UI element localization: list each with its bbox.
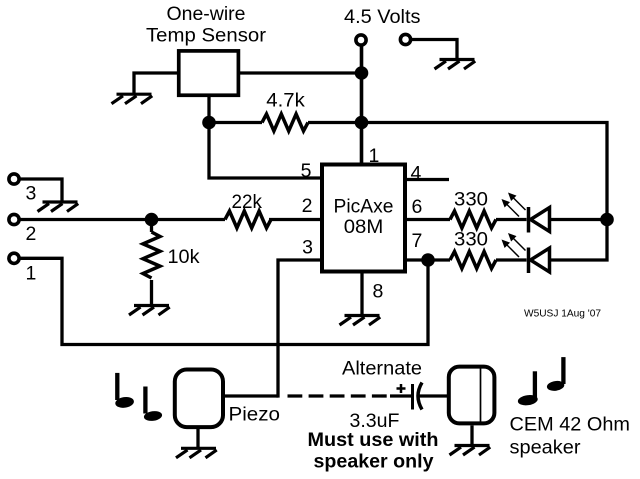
wire terminal 1 to pin 7 node xyxy=(21,258,429,344)
wire LED D1 to rail xyxy=(550,218,608,221)
junction (sensor Vdd) xyxy=(355,66,369,80)
capacitor 3.3uF xyxy=(413,383,423,410)
wire pin 7 xyxy=(405,258,450,261)
svg-text:2: 2 xyxy=(302,195,313,217)
wire sensor data drop to pin 5 xyxy=(209,95,322,178)
wire piezo to ground xyxy=(196,428,199,449)
note icons (piezo) xyxy=(115,373,163,422)
svg-text:6: 6 xyxy=(412,196,423,218)
wire sensor left to ground xyxy=(134,73,179,94)
resistor 22k xyxy=(225,211,322,228)
wire piezo to pin 3 xyxy=(224,394,278,397)
label One-wire Temp Sensor xyxy=(146,3,267,47)
terminal 1 xyxy=(9,253,19,263)
junction (LED1 anode) xyxy=(600,213,614,227)
ground (10k) xyxy=(129,306,170,316)
svg-text:4: 4 xyxy=(411,163,422,185)
wire terminal to ground xyxy=(412,40,457,60)
label PicAxe 08M xyxy=(334,196,394,239)
LED D1 arrows xyxy=(502,193,526,217)
junction (10k divider) xyxy=(145,213,159,227)
terminal 3 xyxy=(9,174,19,184)
resistor 330 (pin 6) xyxy=(450,211,527,228)
resistor 4.7k xyxy=(209,114,362,131)
wire pin 6 xyxy=(405,218,450,221)
svg-text:330: 330 xyxy=(454,189,488,211)
note icons (speaker) xyxy=(517,357,565,406)
svg-text:22k: 22k xyxy=(232,191,263,213)
LED D2 arrows xyxy=(502,233,526,257)
svg-text:1: 1 xyxy=(369,145,380,167)
label CEM 42 Ohm speaker xyxy=(510,414,631,459)
svg-text:5: 5 xyxy=(301,160,312,182)
svg-text:W5USJ 1Aug '07: W5USJ 1Aug '07 xyxy=(524,308,601,320)
svg-text:Temp Sensor: Temp Sensor xyxy=(146,25,267,47)
speaker element xyxy=(449,367,495,424)
wire top rail to LED anodes xyxy=(362,123,608,261)
wire terminal 2 to 22k xyxy=(21,218,226,221)
svg-text:10k: 10k xyxy=(168,246,200,268)
IC U1 PicAxe 08M xyxy=(322,165,405,272)
ground (pin 8) xyxy=(340,316,381,326)
svg-text:2: 2 xyxy=(26,223,37,245)
svg-text:4.5 Volts: 4.5 Volts xyxy=(344,6,421,28)
wire speaker to ground xyxy=(470,426,473,446)
svg-text:One-wire: One-wire xyxy=(167,3,246,25)
svg-text:Piezo: Piezo xyxy=(229,404,281,426)
terminal 2 xyxy=(9,214,19,224)
ground (speaker) xyxy=(450,446,491,456)
svg-text:8: 8 xyxy=(373,281,384,303)
ground (top right) xyxy=(435,60,476,70)
resistor 330 (pin 7) xyxy=(450,252,527,269)
junction (sensor data / 4.7k) xyxy=(202,116,216,130)
svg-text:Alternate: Alternate xyxy=(342,358,422,380)
ground (sensor) xyxy=(112,94,153,104)
junction (pin 7) xyxy=(421,253,435,267)
svg-text:08M: 08M xyxy=(344,216,384,238)
wire dashed alternate xyxy=(288,394,412,397)
ground (piezo) xyxy=(176,448,217,458)
temp sensor box U2 xyxy=(179,51,239,95)
svg-text:Must use with: Must use with xyxy=(308,429,439,451)
wire terminal 3 to ground xyxy=(21,179,63,202)
svg-text:1: 1 xyxy=(26,263,37,285)
ground (terminal 3) xyxy=(38,202,79,212)
svg-text:3: 3 xyxy=(26,183,37,205)
wire pin 3 to piezo xyxy=(278,260,322,398)
svg-text:speaker: speaker xyxy=(510,437,582,459)
piezo element xyxy=(175,370,223,428)
wire pin 4 stub xyxy=(405,178,449,181)
wire sensor right to 4.5V rail xyxy=(238,71,361,74)
label Must use with speaker only xyxy=(308,429,439,473)
svg-text:speaker only: speaker only xyxy=(314,451,434,473)
terminal ground pin xyxy=(400,34,410,44)
capacitor 3.3uF plus sign xyxy=(397,384,406,393)
LED D1 xyxy=(529,207,550,233)
svg-text:7: 7 xyxy=(412,230,423,252)
wire 4.5V vertical to pin 1 xyxy=(360,46,364,165)
svg-text:CEM 42 Ohm: CEM 42 Ohm xyxy=(510,414,631,436)
svg-text:3: 3 xyxy=(302,237,313,259)
terminal 4.5 Volts xyxy=(356,35,366,45)
svg-text:330: 330 xyxy=(454,229,488,251)
wire capacitor to speaker xyxy=(419,394,447,397)
LED D2 xyxy=(529,248,550,274)
resistor 10k xyxy=(143,220,160,306)
junction (4.7k / rail) xyxy=(355,116,369,130)
svg-text:PicAxe: PicAxe xyxy=(334,196,394,218)
wire pin 8 to ground xyxy=(360,272,363,315)
svg-text:4.7k: 4.7k xyxy=(266,90,305,112)
